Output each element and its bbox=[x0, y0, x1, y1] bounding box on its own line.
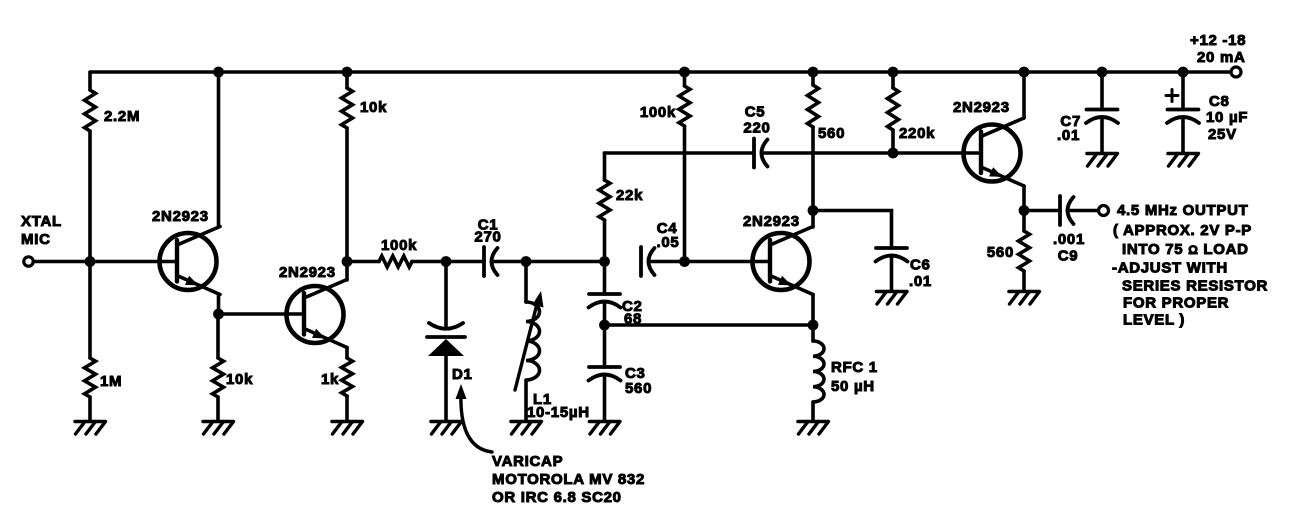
node Q3 collector junction bbox=[808, 205, 819, 216]
svg-text:D1: D1 bbox=[452, 366, 473, 383]
ground below 1k bbox=[332, 422, 363, 435]
svg-text:VARICAP: VARICAP bbox=[492, 453, 563, 470]
ground below C8 bbox=[1168, 154, 1199, 167]
svg-text:MIC: MIC bbox=[21, 231, 51, 248]
svg-text:100k: 100k bbox=[381, 237, 417, 254]
svg-text:LEVEL ): LEVEL ) bbox=[1123, 312, 1185, 329]
wire collector to C6 bbox=[813, 211, 892, 249]
svg-text:.01: .01 bbox=[909, 273, 932, 290]
capacitor C6 .01 bbox=[876, 248, 908, 262]
svg-text:2N2923: 2N2923 bbox=[743, 213, 800, 230]
wire Q3 emitter down bbox=[811, 295, 815, 326]
label Q2 2N2923 bbox=[279, 264, 336, 281]
svg-text:10 µF: 10 µF bbox=[1206, 109, 1248, 126]
annotation arrow to D1 bbox=[456, 384, 493, 452]
wire Q3 collector up bbox=[811, 211, 815, 228]
capacitor C7 .01 bbox=[1086, 72, 1118, 152]
svg-text:.01: .01 bbox=[1057, 127, 1080, 144]
svg-text:2N2923: 2N2923 bbox=[279, 264, 336, 281]
node L1 top bbox=[521, 256, 532, 267]
svg-text:.001: .001 bbox=[1053, 231, 1085, 248]
label 1k bbox=[321, 371, 339, 388]
label C5 220 bbox=[743, 104, 770, 137]
label Q4 2N2923 bbox=[953, 99, 1010, 116]
svg-text:C8: C8 bbox=[1209, 93, 1230, 110]
svg-text:1M: 1M bbox=[100, 373, 122, 390]
ground below L1 bbox=[511, 422, 542, 435]
svg-text:SERIES RESISTOR: SERIES RESISTOR bbox=[1122, 278, 1268, 295]
label C2 68 bbox=[622, 298, 643, 328]
ground below 1M bbox=[75, 422, 106, 435]
capacitor C9 .001 bbox=[1060, 196, 1074, 225]
svg-text:20 mA: 20 mA bbox=[1197, 49, 1246, 66]
wire C3 to ground bbox=[603, 375, 607, 420]
ground below D1 bbox=[431, 422, 462, 435]
label C1 270 bbox=[474, 217, 501, 246]
capacitor C2 68 bbox=[589, 294, 621, 308]
svg-text:100k: 100k bbox=[640, 104, 676, 121]
transistor Q4 2N2923 bbox=[964, 118, 1025, 186]
wire node to C1 bbox=[446, 260, 484, 264]
label 10k Q1 emitter bbox=[226, 371, 253, 388]
svg-text:RFC 1: RFC 1 bbox=[831, 359, 878, 376]
label D1 bbox=[452, 366, 473, 383]
label +12 -18 supply bbox=[1190, 32, 1246, 66]
capacitor C4 .05 bbox=[641, 247, 655, 276]
wire Q1 collector to rail bbox=[217, 72, 221, 227]
label C6 .01 bbox=[909, 257, 932, 291]
wire C6 to ground bbox=[890, 256, 894, 290]
svg-text:220k: 220k bbox=[899, 125, 935, 142]
arrow variable L1 bbox=[515, 291, 544, 390]
svg-text:2.2M: 2.2M bbox=[104, 108, 140, 125]
wire top supply rail bbox=[91, 70, 1231, 74]
node Q2 collector junction bbox=[342, 256, 353, 267]
svg-text:OR IRC 6.8 SC20: OR IRC 6.8 SC20 bbox=[492, 489, 622, 506]
node Q4 emitter junction bbox=[1019, 205, 1030, 216]
resistor 22k bbox=[599, 153, 610, 294]
transistor Q3 2N2923 bbox=[753, 227, 814, 295]
ground below 560 bbox=[1009, 292, 1040, 305]
capacitor C8 10uF bbox=[1167, 72, 1199, 152]
capacitor C5 220 bbox=[754, 139, 768, 168]
label VARICAP note bbox=[492, 453, 645, 506]
node Q3 base junction bbox=[679, 256, 690, 267]
node 220k junction bbox=[888, 148, 899, 159]
node varicap junction bbox=[441, 256, 452, 267]
svg-text:560: 560 bbox=[625, 380, 652, 397]
transistor Q1 2N2923 bbox=[160, 227, 221, 295]
resistor 560 Q3 load bbox=[808, 72, 819, 211]
node 560 at rail bbox=[808, 67, 819, 78]
node input bias junction bbox=[85, 256, 96, 267]
label RFC1 bbox=[831, 359, 878, 395]
terminal +12V supply bbox=[1231, 67, 1241, 77]
svg-text:10k: 10k bbox=[226, 371, 253, 388]
label C4 .05 bbox=[657, 220, 680, 251]
svg-text:2N2923: 2N2923 bbox=[953, 99, 1010, 116]
label L1 bbox=[527, 391, 590, 421]
wire feedback line left bbox=[605, 151, 755, 155]
label C7 .01 bbox=[1057, 113, 1081, 144]
resistor 10k Q2 collector load bbox=[342, 72, 353, 262]
label 560 Q4 emitter bbox=[987, 244, 1014, 261]
svg-text:10-15µH: 10-15µH bbox=[527, 404, 590, 421]
wire Q1 emitter to Q2 base bbox=[219, 312, 305, 316]
label C3 560 bbox=[625, 365, 652, 397]
label 1M bbox=[100, 373, 122, 390]
node Q1 collector at rail bbox=[213, 67, 224, 78]
resistor 100k series bbox=[347, 256, 446, 267]
terminal XTAL MIC input bbox=[24, 257, 33, 266]
svg-text:10k: 10k bbox=[360, 99, 387, 116]
svg-text:.05: .05 bbox=[657, 234, 680, 251]
svg-text:+12 -18: +12 -18 bbox=[1190, 32, 1246, 49]
node C7 at rail bbox=[1097, 67, 1108, 78]
ground below C7 bbox=[1087, 154, 1118, 167]
ground below 10k bbox=[203, 422, 234, 435]
transistor Q2 2N2923 bbox=[287, 280, 348, 348]
wire Q4 collector to rail bbox=[1022, 72, 1026, 118]
capacitor C3 560 bbox=[589, 367, 621, 381]
label 100k bias bbox=[640, 104, 676, 121]
resistor 2.2M bbox=[85, 72, 96, 262]
svg-text:560: 560 bbox=[987, 244, 1014, 261]
node tank junction bbox=[599, 256, 610, 267]
svg-text:FOR PROPER: FOR PROPER bbox=[1123, 295, 1229, 312]
svg-text:C9: C9 bbox=[1058, 248, 1079, 265]
label Q3 2N2923 bbox=[743, 213, 800, 230]
label Q1 2N2923 bbox=[152, 208, 209, 225]
node Q1 emitter junction bbox=[213, 309, 224, 320]
label 220k bbox=[899, 125, 935, 142]
label C9 .001 bbox=[1053, 231, 1085, 265]
node 10k at rail bbox=[342, 67, 353, 78]
resistor 10k Q1 emitter bbox=[213, 314, 224, 420]
node Q3 emitter junction bbox=[808, 320, 819, 331]
label XTAL MIC bbox=[21, 213, 62, 248]
resistor 1k Q2 emitter bbox=[342, 348, 353, 421]
svg-text:( APPROX. 2V P-P: ( APPROX. 2V P-P bbox=[1113, 222, 1252, 239]
wire feedback line right bbox=[762, 151, 981, 155]
svg-text:220: 220 bbox=[743, 120, 770, 137]
node 100k at rail bbox=[679, 67, 690, 78]
svg-text:270: 270 bbox=[474, 229, 501, 246]
svg-text:1k: 1k bbox=[321, 371, 339, 388]
resistor 560 Q4 emitter bbox=[1019, 211, 1030, 291]
wire C1 to tank bbox=[492, 260, 605, 264]
inductor L1 bbox=[526, 262, 540, 421]
wire C2 to C3 bbox=[603, 302, 607, 367]
svg-text:C6: C6 bbox=[910, 257, 931, 274]
node C8 at rail bbox=[1178, 67, 1189, 78]
wire Q2 collector up bbox=[345, 262, 349, 281]
wire input to Q1 base bbox=[34, 260, 177, 264]
ground below RFC1 bbox=[798, 422, 829, 435]
svg-text:2N2923: 2N2923 bbox=[152, 208, 209, 225]
svg-text:50 µH: 50 µH bbox=[831, 378, 875, 395]
capacitor C1 270 bbox=[484, 247, 498, 276]
inductor RFC1 bbox=[813, 325, 824, 420]
svg-text:-ADJUST WITH: -ADJUST WITH bbox=[1112, 260, 1228, 277]
svg-text:C5: C5 bbox=[745, 104, 766, 121]
resistor 220k bbox=[888, 72, 899, 153]
label C8 plus bbox=[1166, 90, 1178, 102]
svg-text:22k: 22k bbox=[616, 187, 643, 204]
svg-text:4.5 MHz OUTPUT: 4.5 MHz OUTPUT bbox=[1117, 202, 1248, 219]
svg-text:MOTOROLA MV 832: MOTOROLA MV 832 bbox=[492, 471, 645, 488]
ground below C3 bbox=[590, 422, 621, 435]
ground below C6 bbox=[877, 292, 908, 305]
svg-text:560: 560 bbox=[818, 125, 845, 142]
wire C9 to output bbox=[1068, 209, 1099, 213]
resistor 100k bias bbox=[679, 72, 690, 262]
svg-text:INTO 75 Ω LOAD: INTO 75 Ω LOAD bbox=[1122, 241, 1249, 258]
label output note bbox=[1112, 202, 1268, 329]
svg-text:XTAL: XTAL bbox=[21, 213, 62, 230]
svg-text:25V: 25V bbox=[1208, 126, 1237, 143]
label 560 Q3 load bbox=[818, 125, 845, 142]
wire Q4 emitter down bbox=[1022, 186, 1026, 211]
wire C4 to Q3 base bbox=[649, 260, 770, 264]
node 220k at rail bbox=[888, 67, 899, 78]
label 100k series bbox=[381, 237, 417, 254]
node Q4 collector at rail bbox=[1019, 67, 1030, 78]
diode D1 varicap bbox=[427, 262, 465, 421]
label 22k bbox=[616, 187, 643, 204]
wire emitter feedback bbox=[605, 323, 814, 327]
resistor 1M bbox=[85, 262, 96, 421]
label 10k collector load bbox=[360, 99, 387, 116]
label C8 values bbox=[1206, 93, 1248, 143]
node emitter feedback junction bbox=[599, 320, 610, 331]
terminal 4.5MHz output bbox=[1099, 206, 1109, 216]
wire Q4 emitter to C9 bbox=[1024, 209, 1060, 213]
wire Q1 emitter down bbox=[217, 295, 221, 315]
label 2.2M bbox=[104, 108, 140, 125]
